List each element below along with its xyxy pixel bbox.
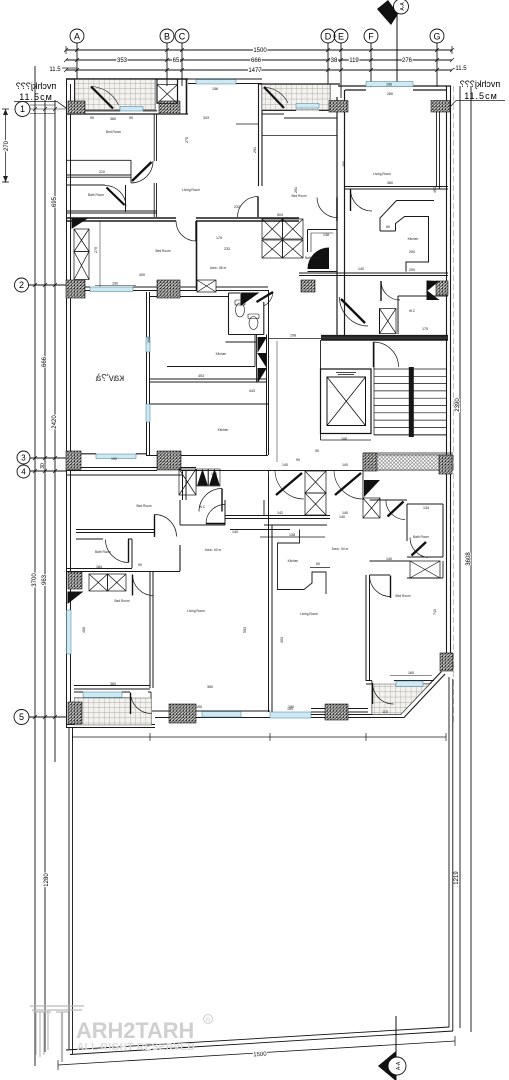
shaft X top BC: [157, 85, 178, 104]
courtyard bottom double sloped: [66, 1027, 453, 1055]
svg-text:119: 119: [349, 58, 359, 64]
wall bl bed top y530: [76, 530, 290, 533]
GRID_TOP: [62, 13, 452, 98]
wall A1 closet divider: [66, 160, 131, 183]
shaft X left pair: [74, 229, 89, 280]
svg-text:30: 30: [40, 463, 46, 469]
grid bubble 4: [17, 465, 30, 478]
wall top mid vertical B/C shaft sides: [157, 79, 178, 104]
svg-text:4: 4: [21, 468, 26, 477]
svg-text:38: 38: [331, 58, 338, 64]
wall top-right outer double: [338, 86, 451, 90]
wall grid2 right segment to D: [262, 218, 299, 221]
wall bottom left-mid double: [152, 711, 270, 718]
svg-text:142: 142: [277, 511, 283, 515]
wall walkway right band: [363, 455, 453, 470]
dimension ticks top: [64, 48, 454, 72]
column E1: [68, 572, 82, 589]
closet X wc mid: [380, 309, 397, 334]
svg-text:504: 504: [277, 213, 283, 217]
door arc bl bath: [106, 540, 129, 563]
wall A1 bath bottom: [66, 211, 157, 213]
window bottom mid 1: [202, 712, 241, 718]
balcony tiles bottom-right chamfered: [372, 684, 430, 715]
svg-text:184: 184: [96, 565, 102, 569]
svg-text:A-A: A-A: [396, 1061, 402, 1070]
wall top balcony inner edge: [75, 79, 156, 110]
svg-text:Living Room: Living Room: [373, 172, 391, 176]
wall chamfer bottom-right: [401, 672, 446, 718]
svg-text:3: 3: [21, 454, 26, 463]
wall grid2 line left (y285): [66, 287, 197, 291]
svg-text:460: 460: [433, 187, 437, 193]
dim line balcony br: [390, 675, 432, 677]
svg-text:Living Room: Living Room: [300, 612, 318, 616]
svg-text:Bed Room: Bed Room: [395, 594, 410, 598]
svg-text:276: 276: [402, 58, 413, 64]
wall bl bed2/living divider x150: [150, 572, 153, 688]
svg-text:1280: 1280: [44, 873, 50, 887]
window br balcony: [396, 681, 423, 687]
door arc br bath: [410, 538, 428, 558]
LEFT_DIMS: [2, 66, 67, 1066]
door black leaf right of corridor: [364, 480, 380, 497]
svg-text:ARH2TARH: ARH2TARH: [76, 1018, 194, 1043]
door black leaf bl closet: [68, 592, 82, 603]
svg-text:11.5см: 11.5см: [19, 92, 53, 102]
watermark logo pillar: [30, 1006, 84, 1062]
wall br balcony left x372: [371, 681, 373, 715]
wall bl bath box: [76, 539, 132, 569]
closet X br horizontal: [410, 561, 440, 578]
wall bottom left balcony double: [66, 725, 155, 728]
wall wc1 corridor stub: [226, 335, 257, 383]
svg-text:200: 200: [409, 268, 415, 272]
svg-text:140: 140: [282, 463, 288, 467]
svg-text:90: 90: [90, 116, 94, 120]
dim vertical line 3700: [34, 66, 36, 1066]
grid bubble 5: [14, 710, 29, 725]
wall bl living right x268: [269, 475, 273, 712]
svg-text:G: G: [433, 32, 440, 42]
door arc br bed: [370, 576, 391, 599]
svg-text:291: 291: [294, 187, 298, 193]
svg-text:1500: 1500: [253, 48, 267, 54]
shaft X quad D/E: [262, 219, 303, 258]
misc wall right of walkway x363: [362, 470, 364, 500]
door arc bl bed1: [155, 515, 177, 538]
door arc bl balcony: [131, 693, 152, 715]
svg-text:308: 308: [147, 337, 151, 343]
elevator lobby wall below: [321, 439, 372, 441]
svg-text:140: 140: [339, 515, 345, 519]
grid line E: [340, 43, 342, 98]
grid line 4: [30, 470, 67, 472]
svg-text:291: 291: [253, 147, 257, 153]
column D2: [157, 451, 181, 470]
door arc br corridor top: [386, 501, 405, 520]
svg-text:Bed Room: Bed Room: [106, 130, 121, 134]
svg-text:270: 270: [94, 247, 98, 253]
svg-text:Bath Room: Bath Room: [88, 193, 104, 197]
door black leaf wc1 top: [241, 293, 258, 305]
dim tick marks row1: [66, 46, 452, 54]
window bl balcony: [83, 692, 122, 698]
column C3: [301, 280, 315, 292]
svg-text:188: 188: [341, 437, 347, 441]
wc1 fixtures: [235, 300, 259, 330]
svg-text:90: 90: [315, 449, 319, 453]
svg-text:200: 200: [409, 250, 415, 254]
svg-text:Living Room: Living Room: [187, 609, 205, 613]
dim vertical line 2420: [44, 100, 46, 1052]
WATERMARK: [30, 1006, 213, 1062]
column B4: [431, 101, 450, 113]
wall vertical D/E core double: [337, 90, 345, 335]
svg-text:Living Room: Living Room: [182, 188, 200, 192]
wall top-middle balcony: [258, 83, 340, 85]
svg-text:443: 443: [249, 389, 255, 393]
section line A-A bottom: [395, 1016, 397, 1080]
window top A1 living: [196, 80, 236, 85]
svg-text:140: 140: [386, 557, 392, 561]
wall bc/br bottom edge y681: [366, 681, 434, 685]
svg-text:115: 115: [382, 710, 388, 714]
leader right: [450, 101, 505, 108]
window top-left balcony: [120, 107, 143, 112]
svg-text:60: 60: [316, 562, 320, 566]
wall bc kitchen top y525: [264, 524, 327, 526]
svg-text:963: 963: [42, 574, 48, 585]
door arc A1 interior 1: [131, 161, 153, 183]
column D1: [66, 451, 81, 470]
stairs: [374, 369, 447, 435]
left 11.5 leader: [62, 67, 77, 69]
column B1: [68, 101, 85, 114]
wall br bath box: [407, 504, 443, 557]
grid line A: [76, 43, 78, 80]
svg-text:90: 90: [296, 458, 300, 462]
window grid3 left: [96, 454, 136, 459]
svg-text:W.C: W.C: [409, 309, 416, 313]
svg-text:140: 140: [232, 530, 238, 534]
svg-text:140: 140: [342, 463, 348, 467]
svg-text:160: 160: [408, 671, 414, 675]
misc corridor walls mid-bottom: [225, 471, 330, 519]
svg-text:A-A: A-A: [400, 2, 406, 11]
wall top window strip A1 living: [188, 79, 262, 84]
svg-text:275: 275: [185, 137, 189, 143]
dim line 270: [2, 109, 9, 182]
wall kitchen3 counter L: [380, 201, 434, 232]
wall br below bath: [370, 561, 444, 578]
wall corridor top of stairs thick: [321, 336, 448, 340]
column E2: [440, 653, 453, 671]
wall vertical x186 top: [186, 79, 188, 114]
svg-text:Bed Room: Bed Room: [155, 249, 170, 253]
grid bubble E: [334, 29, 348, 43]
column F2: [169, 704, 196, 723]
svg-text:1477: 1477: [248, 68, 262, 74]
wall br bed left top: [370, 574, 391, 576]
svg-text:140: 140: [211, 472, 217, 476]
underline leader left: [14, 102, 66, 109]
dim line A2 190: [95, 285, 136, 287]
door arc corridor-stair lower: [350, 355, 378, 383]
window bottom mid 2: [270, 712, 311, 718]
wall A1 bath right: [125, 185, 127, 212]
wall grid2 upper thick A1 bottom: [66, 218, 262, 221]
svg-text:11.5см: 11.5см: [464, 91, 498, 101]
wall below balcony double: [66, 111, 188, 114]
wall bottom mid jog: [311, 709, 368, 713]
svg-text:65: 65: [173, 58, 180, 64]
window grid2 left: [90, 287, 133, 292]
svg-text:5: 5: [19, 712, 24, 722]
svg-text:666: 666: [42, 356, 48, 367]
svg-text:90: 90: [138, 563, 142, 567]
watermark registered: [204, 1015, 213, 1024]
wall bottom right section double: [270, 715, 405, 718]
wall kitchen1 bottom: [150, 379, 267, 382]
dim line corridor vertical: [276, 341, 278, 462]
corridor fill line: [321, 336, 448, 339]
balcony mid edges: [262, 84, 330, 110]
wall kitchen2 top y404: [150, 403, 269, 405]
svg-text:Area : 65 m: Area : 65 m: [210, 266, 227, 270]
column B2: [159, 101, 180, 114]
svg-text:Bed Room: Bed Room: [136, 504, 151, 508]
grid bubble F: [364, 29, 378, 43]
wall wc-bl box: [180, 500, 225, 525]
entry door 1 mid corridor: [275, 471, 304, 499]
wall kitchen2 bottom = grid3 upper: [66, 454, 363, 471]
svg-text:11.5: 11.5: [49, 67, 61, 73]
stair rail dark: [409, 367, 414, 437]
door arc A2 entry: [317, 198, 337, 222]
svg-text:743: 743: [433, 609, 437, 615]
svg-text:Bath Room: Bath Room: [305, 256, 321, 260]
window mid balcony: [296, 104, 319, 109]
door black leaves corridor x262: [258, 338, 266, 382]
svg-text:Bed Room: Bed Room: [291, 194, 306, 198]
wall bl balcony edges: [74, 692, 151, 717]
dim vertical 2390/1219: [459, 86, 461, 1028]
svg-text:ALL RIGHT RESERVED: ALL RIGHT RESERVED: [77, 1042, 195, 1053]
courtyard right wall double: [449, 677, 453, 1031]
svg-text:190: 190: [112, 282, 118, 286]
svg-text:210: 210: [99, 170, 105, 174]
courtyard left wall double: [69, 727, 73, 1054]
column B3: [329, 101, 348, 113]
section marker A-A bottom: [378, 1051, 406, 1080]
svg-text:1219: 1219: [454, 871, 460, 885]
svg-text:1: 1: [20, 104, 25, 114]
grid bubble C: [175, 29, 189, 43]
door shaft X walkway: [179, 469, 196, 495]
grid bubble B: [160, 29, 174, 43]
wall bl y568: [66, 545, 180, 572]
grid bubble G: [430, 29, 444, 43]
grid bubble A: [70, 29, 84, 43]
kitchen3 counter inner: [380, 217, 429, 272]
svg-text:Area : 54 m: Area : 54 m: [332, 547, 349, 551]
wall x320 corridor left of elevator: [320, 340, 322, 440]
wall bc right divider x366: [366, 575, 370, 681]
svg-text:360: 360: [110, 682, 116, 686]
svg-text:400: 400: [139, 273, 145, 277]
column D3: [363, 453, 377, 471]
door arc balcony A1: [91, 87, 119, 109]
svg-text:360: 360: [110, 117, 116, 121]
column C1: [66, 280, 85, 298]
svg-text:666: 666: [251, 58, 262, 64]
svg-text:400: 400: [82, 627, 86, 633]
arrow 270 bottom: [3, 176, 8, 182]
wall storage left x146: [147, 292, 150, 455]
grid line 1: [30, 105, 67, 114]
entry door 2 mid corridor: [334, 471, 363, 499]
svg-text:Bath Room: Bath Room: [413, 535, 429, 539]
wall grid2 right area y274: [299, 273, 448, 276]
svg-text:138: 138: [323, 233, 329, 237]
wall left outer double: [67, 79, 71, 727]
wall kitchen1 top: [150, 296, 228, 298]
svg-text:270: 270: [4, 140, 10, 151]
svg-text:Kitchen: Kitchen: [218, 428, 229, 432]
dim line A2 vertical: [99, 221, 101, 287]
wall A3 living right: [437, 112, 440, 189]
wall A3 living bottom y186: [345, 187, 448, 190]
BOTTOM: [58, 677, 455, 1080]
svg-text:2: 2: [19, 280, 24, 290]
svg-text:R: R: [206, 1017, 211, 1024]
bottom dim ticks: [58, 1036, 455, 1070]
door arc A1 bath: [105, 186, 126, 207]
wall grid2 mid segment: [216, 287, 268, 291]
section marker A-A top: [377, 0, 409, 25]
wall bottom apartments: divider x184: [183, 471, 187, 500]
wall bl bed2 bottom y686: [74, 686, 150, 690]
dimension line 1500 top: [66, 49, 452, 51]
bottom dimension line 1500: [58, 1041, 455, 1065]
wall top-left outer: [66, 78, 188, 80]
door arc below walkway: [199, 489, 222, 512]
svg-text:134: 134: [423, 506, 429, 510]
door black triangles walkway: [197, 469, 221, 486]
svg-text:C: C: [179, 32, 186, 42]
door black leaf grid2 left: [72, 219, 86, 228]
svg-text:175: 175: [422, 327, 428, 331]
RIGHT_DIMS: [454, 86, 472, 1032]
wall right outer double: [447, 86, 451, 655]
svg-text:190: 190: [111, 457, 117, 461]
svg-text:Bath Room: Bath Room: [95, 550, 111, 554]
wall A1 living/corridor x258: [259, 84, 263, 186]
svg-text:Kitchen: Kitchen: [408, 237, 419, 241]
walkway diagonal hatch: [363, 455, 453, 470]
svg-text:403: 403: [198, 374, 204, 378]
grid bubble 2: [15, 278, 29, 292]
wall br top corridor: [370, 499, 408, 501]
wall A1 bath top: [66, 184, 105, 186]
grid bubble 3: [17, 451, 30, 464]
svg-text:2390: 2390: [455, 398, 461, 412]
wall bc kitchen counter: [278, 530, 327, 595]
svg-text:F: F: [368, 32, 374, 42]
window top-right: [366, 82, 413, 87]
arrow 270 top: [3, 109, 8, 115]
grid bubble D: [321, 29, 335, 43]
door arc A3 kitchen: [351, 190, 373, 212]
wall stair right boundary: [373, 342, 375, 369]
door arc A2 bedroom: [176, 221, 196, 241]
door arc br balcony: [373, 683, 394, 704]
svg-text:175: 175: [216, 236, 222, 240]
grid line C: [181, 43, 183, 86]
svg-text:Kitchen: Kitchen: [216, 352, 227, 356]
door arc grid2 right: [381, 281, 400, 301]
door pie bath mid black: [308, 248, 330, 270]
dashed boundary line right: [453, 86, 455, 724]
svg-text:B: B: [164, 32, 170, 42]
section line A-A top: [396, 13, 398, 86]
door black leaf wc1 right: [257, 292, 274, 306]
svg-text:κavʹ?à: κavʹ?à: [95, 373, 124, 384]
svg-text:3700: 3700: [32, 573, 38, 587]
dimension line row2: [66, 59, 452, 61]
closet X pair bottom-left: [89, 574, 126, 591]
svg-text:156: 156: [212, 87, 218, 91]
column D4: [439, 455, 452, 474]
column C4: [436, 281, 448, 295]
svg-text:пvchkj???: пvchkj???: [16, 81, 56, 91]
svg-text:298: 298: [290, 334, 296, 338]
wall corridor x268 mid: [267, 290, 269, 455]
door arc corridor big: [340, 297, 369, 326]
svg-text:360: 360: [207, 685, 213, 689]
svg-text:190: 190: [288, 705, 294, 709]
svg-text:пvchkj???: пvchkj???: [460, 79, 500, 89]
svg-text:553: 553: [243, 627, 247, 633]
elevator shaft: [321, 369, 372, 434]
svg-text:695: 695: [52, 196, 58, 207]
door arc balcony mid: [264, 87, 288, 108]
svg-text:233: 233: [234, 205, 240, 209]
wall corridor lobby top: [269, 338, 322, 340]
window storage wall 1: [146, 337, 150, 352]
svg-text:90: 90: [129, 116, 133, 120]
door black leaf top right: [427, 281, 438, 300]
wall stairwell bottom landing: [363, 435, 453, 453]
wall A2 bedroom right: [196, 221, 198, 290]
svg-text:W.C: W.C: [199, 505, 206, 509]
balcony tiles bottom-left: [75, 698, 152, 725]
column F1: [68, 702, 82, 724]
wall A3 wc area: [380, 296, 449, 334]
svg-text:233: 233: [224, 247, 230, 251]
grid line 5: [29, 716, 67, 718]
svg-text:138: 138: [289, 533, 295, 537]
svg-text:D: D: [325, 32, 332, 42]
wall A1 bed/living divider: [154, 114, 156, 217]
balcony tiles top-middle: [262, 85, 330, 111]
dimension ticks left: [4, 107, 58, 719]
column F3: [325, 704, 348, 720]
column C2: [157, 280, 180, 298]
door arc wc bl: [206, 505, 225, 524]
wall below mid balcony: [262, 111, 337, 119]
